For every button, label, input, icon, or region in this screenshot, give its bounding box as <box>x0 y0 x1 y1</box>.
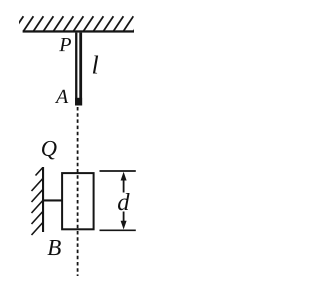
svg-text:P: P <box>58 34 71 56</box>
svg-text:A: A <box>54 86 69 108</box>
svg-text:d: d <box>117 189 130 216</box>
svg-text:B: B <box>47 235 61 260</box>
dashed line <box>77 107 79 276</box>
dimension arrow down <box>121 212 127 230</box>
rod PA <box>75 33 82 106</box>
connector Q-block <box>44 199 63 201</box>
ceiling line <box>23 30 134 32</box>
ceiling hatching <box>13 16 143 31</box>
block B <box>62 173 94 229</box>
dimension tick top <box>100 170 136 172</box>
wall hatching <box>32 168 43 236</box>
svg-text:l: l <box>91 51 98 80</box>
wall line <box>42 167 44 232</box>
dimension arrow up <box>121 172 127 193</box>
dimension tick bottom <box>100 229 136 231</box>
svg-text:Q: Q <box>41 136 57 161</box>
